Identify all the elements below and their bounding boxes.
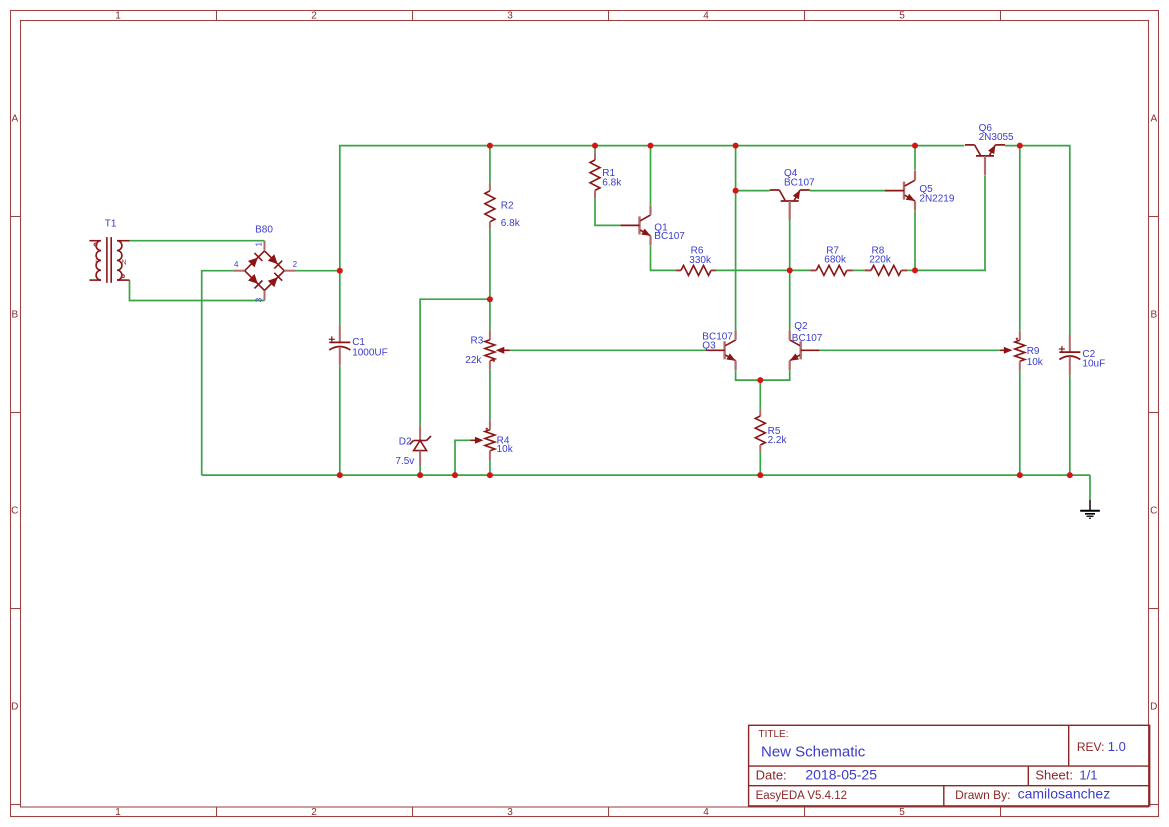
- junction emitter join R5: [757, 377, 763, 383]
- svg-text:2: 2: [311, 807, 317, 818]
- wire R3 wiper to Q3 base: [510, 349, 706, 351]
- svg-text:1: 1: [115, 807, 121, 818]
- svg-text:1/1: 1/1: [1079, 768, 1097, 783]
- ruler tick bottom x=1000.5: [1000, 807, 1002, 817]
- wire D2 bottom to bottom rail: [419, 465, 421, 475]
- ruler tick top x=608.5: [608, 11, 610, 21]
- bridge rectifier B80: [234, 241, 295, 301]
- transistor Q6: [976, 155, 994, 157]
- svg-text:New Schematic: New Schematic: [761, 744, 866, 761]
- svg-text:2N2219: 2N2219: [919, 194, 954, 205]
- junction R9 bottom rail: [1017, 472, 1023, 478]
- svg-text:Q2: Q2: [794, 321, 808, 332]
- junction Q3 column rail: [733, 143, 739, 149]
- svg-text:B80: B80: [255, 225, 273, 236]
- svg-text:330k: 330k: [689, 255, 712, 266]
- wire R9 top from rail: [1019, 146, 1021, 331]
- svg-text:I: I: [95, 260, 97, 267]
- transistor Q4: [781, 200, 799, 202]
- junction C1 node: [337, 268, 343, 274]
- ground: [1080, 500, 1100, 518]
- svg-text:T1: T1: [105, 218, 117, 229]
- svg-text:4: 4: [703, 807, 709, 818]
- wire Q1 collector to top rail: [650, 146, 652, 206]
- svg-text:A: A: [1150, 114, 1157, 125]
- junction Q1 collector rail: [648, 143, 654, 149]
- junction D2 bottom rail: [417, 472, 423, 478]
- svg-text:BC107: BC107: [792, 333, 823, 344]
- junction Q2 collector chain: [787, 267, 793, 273]
- wire Q4 collector to column node: [736, 190, 770, 192]
- ruler tick right y=804.5: [1149, 804, 1159, 806]
- wire chain node to Q6 base stem: [915, 175, 985, 270]
- wire R7 R8 link: [853, 269, 865, 271]
- wire R1 top: [594, 146, 596, 153]
- svg-text:10uF: 10uF: [1082, 359, 1105, 370]
- junction R4 bottom rail: [487, 472, 493, 478]
- capacitor C1: [329, 326, 351, 366]
- svg-text:1: 1: [255, 242, 264, 247]
- svg-text:1.0: 1.0: [1108, 739, 1126, 754]
- potentiometer R3: [485, 330, 510, 369]
- wire R5 top: [759, 380, 761, 410]
- svg-text:3: 3: [507, 10, 513, 21]
- svg-text:2.2k: 2.2k: [768, 435, 788, 446]
- ruler tick top x=216.5: [216, 11, 218, 21]
- wire bottom rail: [202, 474, 1090, 476]
- ruler tick left y=412.5: [11, 412, 21, 414]
- wire transformer secondary top to bridge pin 1: [130, 240, 265, 242]
- ruler tick left y=216.5: [11, 216, 21, 218]
- resistor R6: [676, 265, 716, 275]
- wire R4 bottom to bottom rail: [489, 460, 491, 475]
- svg-text:C: C: [11, 506, 18, 517]
- junction R9 top rail: [1017, 143, 1023, 149]
- svg-text:1: 1: [115, 10, 121, 21]
- svg-text:EasyEDA V5.4.12: EasyEDA V5.4.12: [756, 790, 847, 802]
- wire C2 bottom to bottom rail: [1069, 375, 1071, 475]
- transistor Q3: [723, 341, 725, 359]
- svg-text:N: N: [121, 260, 126, 267]
- resistor R2: [485, 184, 495, 229]
- wire Q5 emitter down to chain: [914, 211, 916, 271]
- junction R8 Q5 emitter chain: [912, 267, 918, 273]
- zener diode D2: [410, 426, 431, 465]
- wire Q6 emitter to right rail and C2 column: [1005, 146, 1070, 335]
- wire R9 bottom to bottom rail: [1019, 370, 1021, 475]
- ruler tick bottom x=608.5: [608, 807, 610, 817]
- svg-text:6.8k: 6.8k: [602, 178, 622, 189]
- svg-text:A: A: [11, 114, 18, 125]
- svg-text:3: 3: [255, 297, 264, 302]
- ruler tick right y=216.5: [1149, 216, 1159, 218]
- junction Q4 collector node: [733, 188, 739, 194]
- wire Q4 emitter to Q5 base: [810, 190, 886, 192]
- wire Q2 base to R9 wiper: [820, 349, 1000, 351]
- wire bridge pin 2 to C1 node: [295, 270, 340, 272]
- svg-text:1000UF: 1000UF: [352, 347, 388, 358]
- svg-text:R9: R9: [1027, 346, 1040, 357]
- svg-text:TITLE:: TITLE:: [759, 729, 789, 740]
- svg-text:2: 2: [311, 10, 317, 21]
- svg-text:D: D: [1150, 702, 1157, 713]
- capacitor C2: [1059, 335, 1080, 375]
- ruler tick left y=804.5: [11, 804, 21, 806]
- wire R3 bottom to R4 top: [489, 369, 491, 420]
- svg-text:D2: D2: [399, 436, 412, 447]
- resistor R1: [590, 153, 600, 199]
- junction R2 top rail: [487, 143, 493, 149]
- svg-text:C: C: [1150, 506, 1157, 517]
- ruler tick top x=1000.5: [1000, 11, 1002, 21]
- svg-text:B: B: [11, 310, 18, 321]
- wire Q4 base stem down to Q2 collector: [789, 220, 791, 330]
- junction C1 bottom rail: [337, 472, 343, 478]
- svg-text:10k: 10k: [1027, 357, 1044, 368]
- wire R8 to Q5 emitter node: [907, 269, 915, 271]
- svg-text:22k: 22k: [465, 355, 482, 366]
- ruler tick bottom x=216.5: [216, 807, 218, 817]
- ruler tick right y=412.5: [1149, 412, 1159, 414]
- junction R4 wiper bottom rail: [452, 472, 458, 478]
- svg-text:4: 4: [234, 260, 239, 269]
- potentiometer R4: [471, 420, 495, 460]
- junction Q5 collector rail: [912, 143, 918, 149]
- ruler tick bottom x=804.5: [804, 807, 806, 817]
- svg-text:R2: R2: [501, 201, 514, 212]
- svg-text:Sheet:: Sheet:: [1035, 768, 1073, 783]
- svg-text:5: 5: [899, 807, 905, 818]
- wire bridge pin 4 to bottom rail: [202, 271, 234, 475]
- wire R2 bottom to node: [489, 229, 491, 299]
- title block frame: [749, 725, 1150, 806]
- svg-text:Drawn By:: Drawn By:: [955, 788, 1010, 802]
- potentiometer R9: [1000, 331, 1025, 371]
- svg-text:camilosanchez: camilosanchez: [1018, 786, 1111, 802]
- svg-text:BC107: BC107: [654, 231, 685, 242]
- wire R6 to R7 node: [716, 269, 810, 271]
- svg-text:B: B: [1150, 310, 1157, 321]
- transistor Q1: [638, 216, 640, 234]
- resistor R5: [755, 410, 765, 451]
- svg-text:REV:: REV:: [1077, 740, 1105, 754]
- wire Q5 collector to top rail: [914, 146, 916, 171]
- junction R1 top rail: [592, 143, 598, 149]
- wire Q3 collector column: [735, 146, 737, 331]
- svg-text:6.8k: 6.8k: [501, 218, 521, 229]
- svg-text:7.5v: 7.5v: [395, 456, 414, 467]
- wire Q1 emitter to R6: [651, 246, 677, 271]
- svg-text:680k: 680k: [824, 254, 847, 265]
- svg-text:BC107: BC107: [784, 177, 815, 188]
- wire top rail: [340, 146, 965, 326]
- svg-text:2: 2: [293, 260, 298, 269]
- resistor R7: [810, 265, 853, 275]
- transistor Q5: [903, 182, 905, 200]
- wire R2 top: [489, 146, 491, 184]
- ruler tick left y=608.5: [11, 608, 21, 610]
- wire node to D2: [420, 299, 490, 426]
- ruler tick top x=412.5: [412, 11, 414, 21]
- resistor R8: [865, 265, 907, 275]
- junction R2 R3 D2 node: [487, 296, 493, 302]
- transistor Q2: [800, 341, 802, 359]
- svg-text:D: D: [11, 702, 18, 713]
- wire transformer secondary bottom to bridge pin 3: [130, 280, 265, 300]
- ruler tick right y=608.5: [1149, 608, 1159, 610]
- ruler tick top x=804.5: [804, 11, 806, 21]
- wire R5 bottom to bottom rail: [759, 451, 761, 475]
- wire Q3 emitter join: [736, 371, 790, 381]
- svg-text:3: 3: [507, 807, 513, 818]
- junction C2 bottom rail: [1067, 472, 1073, 478]
- wire C1 bottom to bottom rail: [339, 365, 341, 475]
- svg-text:5: 5: [899, 10, 905, 21]
- svg-text:2N3055: 2N3055: [979, 132, 1014, 143]
- svg-text:Date:: Date:: [756, 768, 787, 783]
- wire ground drop: [1089, 475, 1091, 500]
- junction R5 bottom rail: [757, 472, 763, 478]
- svg-text:220k: 220k: [869, 254, 892, 265]
- svg-text:10k: 10k: [497, 444, 514, 455]
- ruler tick bottom x=412.5: [412, 807, 414, 817]
- svg-text:R3: R3: [471, 336, 484, 347]
- svg-text:2018-05-25: 2018-05-25: [805, 767, 877, 783]
- svg-text:4: 4: [703, 10, 709, 21]
- wire R4 wiper from bottom rail: [455, 440, 471, 475]
- svg-text:Q3: Q3: [702, 341, 716, 352]
- transformer T1: [89, 237, 129, 283]
- wire R1 bottom to Q1 base: [595, 198, 620, 225]
- wire node to R3 top: [489, 299, 491, 330]
